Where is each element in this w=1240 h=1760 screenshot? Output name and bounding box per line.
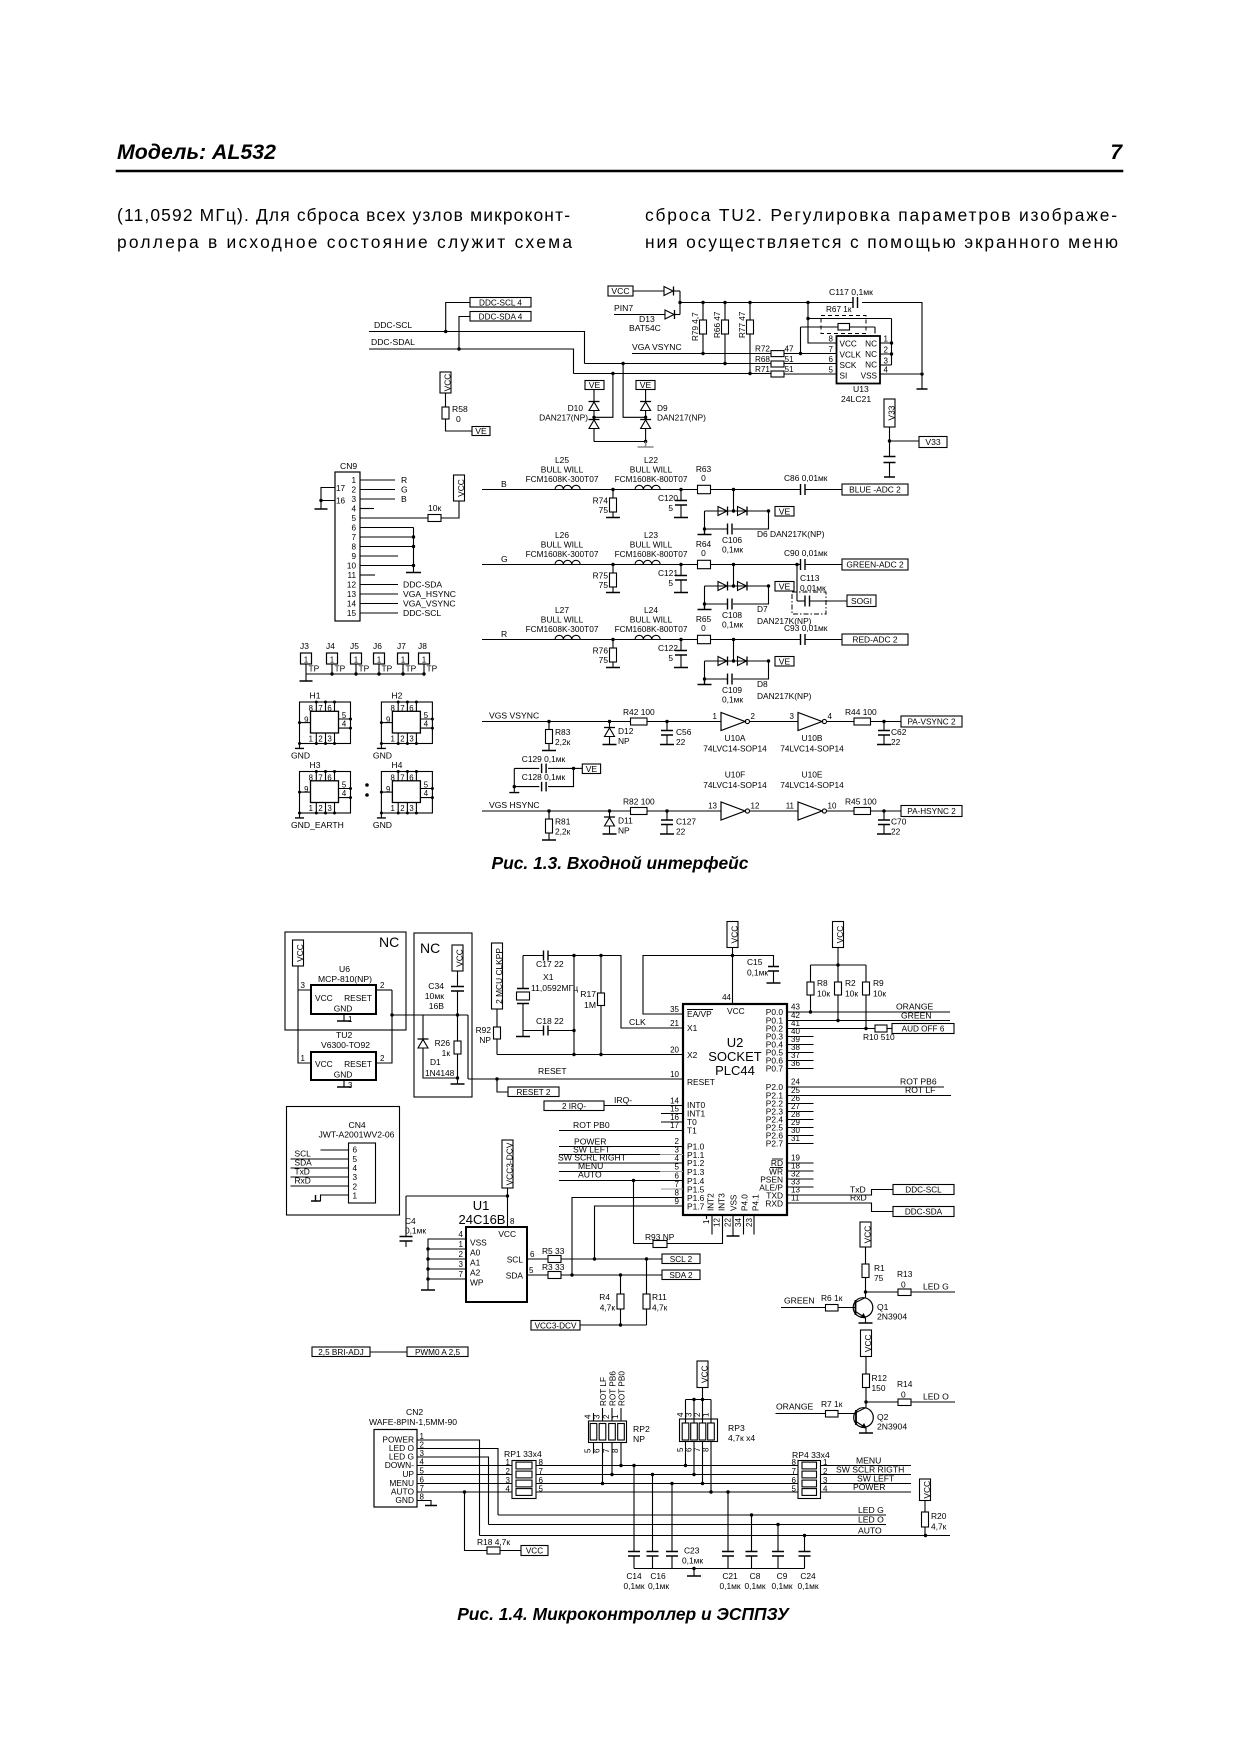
svg-text:J4: J4 (326, 641, 335, 651)
svg-text:LED G: LED G (923, 1282, 949, 1292)
wire crystal bottom with C18 (523, 1030, 574, 1032)
svg-text:VCC: VCC (526, 1547, 543, 1556)
svg-text:ORANGE: ORANGE (776, 1402, 814, 1412)
junction D9 middle (644, 416, 647, 419)
ground of H4 (380, 813, 382, 818)
svg-text:NC: NC (865, 361, 877, 370)
CN9 pin9 stub (360, 555, 398, 557)
svg-text:VCC: VCC (315, 993, 333, 1003)
svg-text:VGS VSYNC: VGS VSYNC (489, 711, 539, 721)
svg-text:R12: R12 (872, 1373, 888, 1383)
svg-text:1: 1 (713, 712, 718, 721)
svg-text:10к: 10к (428, 503, 442, 513)
svg-text:NP: NP (633, 1434, 645, 1444)
junction SDA R4 (619, 1273, 622, 1276)
wire VGS VSYNC row (482, 721, 901, 723)
wire top VCC rail with C117 (680, 303, 922, 373)
ground R83 (542, 750, 556, 752)
svg-text:0: 0 (901, 1280, 906, 1290)
RP2 pin8 wire to row1 (620, 1443, 622, 1466)
svg-text:VCC3-DCV: VCC3-DCV (505, 1142, 515, 1185)
svg-text:JWT-A2001WV2-06: JWT-A2001WV2-06 (319, 1130, 395, 1140)
svg-text:Q2: Q2 (877, 1412, 889, 1422)
svg-text:7: 7 (351, 533, 356, 542)
svg-text:C14: C14 (626, 1571, 642, 1581)
svg-text:ROT PB0: ROT PB0 (573, 1120, 610, 1130)
svg-text:Рис. 1.3. Входной интерфейс: Рис. 1.3. Входной интерфейс (492, 853, 749, 873)
svg-text:75: 75 (599, 580, 609, 590)
svg-text:0,1мк: 0,1мк (719, 1581, 740, 1591)
wire C4 top (406, 1195, 508, 1197)
svg-text:4: 4 (828, 712, 833, 721)
svg-text:ROT LF: ROT LF (599, 1377, 608, 1406)
svg-text:VE: VE (779, 656, 791, 666)
svg-text:R7 1к: R7 1к (821, 1399, 843, 1409)
svg-text:8: 8 (309, 773, 313, 782)
ground CN9 bus (406, 572, 421, 574)
svg-text:V33: V33 (925, 437, 941, 447)
resistor R6 (826, 1305, 839, 1312)
svg-text:C127: C127 (676, 817, 696, 827)
capacitor C16 (651, 1473, 654, 1476)
ground caps rail (693, 1569, 695, 1577)
svg-text:22: 22 (891, 827, 901, 837)
svg-text:2: 2 (400, 804, 404, 813)
svg-text:TP: TP (335, 664, 346, 674)
net ROT PB0 rotated label and wire (620, 1408, 622, 1421)
resistor network RP3 4,7к x4 (680, 1419, 718, 1442)
svg-text:P2.7: P2.7 (766, 1139, 784, 1149)
resistor R5 (548, 1256, 561, 1263)
svg-text:24LC21: 24LC21 (841, 394, 871, 404)
wire after series resistor (711, 564, 801, 566)
svg-text:DAN217(NP): DAN217(NP) (657, 413, 706, 423)
wire C129 C128 right join (573, 768, 575, 786)
svg-text:VCC: VCC (443, 374, 453, 392)
net box DDC-SCL (893, 1185, 954, 1195)
svg-text:4: 4 (459, 1230, 464, 1239)
svg-text:13: 13 (347, 590, 357, 599)
ground C70 (877, 833, 891, 835)
capacitor C34 (457, 971, 459, 986)
ground C128 C129 block (513, 785, 516, 788)
svg-text:NC: NC (865, 350, 877, 359)
svg-text:R8: R8 (817, 978, 828, 988)
svg-text:VGS HSYNC: VGS HSYNC (489, 800, 540, 810)
CN9 pin7 wire to bus (360, 536, 414, 538)
net label box DDC-SCL 4 (470, 298, 531, 308)
CN9 pin5 wire to resistor 10k (360, 517, 428, 519)
net box RESET 2 (508, 1087, 559, 1097)
svg-text:MCP-810(NP): MCP-810(NP) (318, 974, 372, 984)
RP2 pin7 wire to row2 (611, 1443, 613, 1475)
svg-text:6: 6 (351, 524, 356, 533)
svg-text:0,1мк: 0,1мк (771, 1581, 792, 1591)
svg-text:8: 8 (391, 773, 395, 782)
svg-text:TP: TP (309, 664, 320, 674)
power VCC box (R58) (440, 372, 451, 393)
svg-text:VSS: VSS (730, 1194, 739, 1211)
svg-text:10: 10 (347, 562, 357, 571)
svg-text:GND_EARTH: GND_EARTH (291, 820, 344, 830)
power VCC box (RP3) (697, 1361, 708, 1388)
junction diode branch (732, 638, 735, 641)
wire to diode pair (733, 640, 735, 662)
svg-text:FCM1608K-800T07: FCM1608K-800T07 (615, 549, 688, 559)
svg-text:L24: L24 (644, 605, 658, 615)
svg-text:4,7к: 4,7к (600, 1303, 616, 1313)
ground C122 (674, 667, 688, 669)
net LED G row (498, 1514, 886, 1516)
svg-text:6: 6 (409, 704, 413, 713)
svg-text:VCC: VCC (835, 926, 845, 944)
svg-text:5: 5 (342, 781, 347, 790)
svg-text:C93 0,01мк: C93 0,01мк (784, 623, 828, 633)
svg-text:10к: 10к (873, 989, 886, 999)
capacitor C17 (544, 951, 549, 961)
svg-text:A2: A2 (470, 1268, 481, 1278)
U2 bottom pin 23 stub (753, 1215, 755, 1235)
svg-text:C62: C62 (891, 727, 907, 737)
svg-text:22: 22 (676, 737, 686, 747)
power VCC box (U2) (727, 922, 738, 948)
ground below D9 D10 (638, 442, 654, 448)
svg-text:35: 35 (670, 1005, 679, 1014)
IC U13 24LC21 body (837, 336, 881, 384)
svg-text:X1: X1 (543, 972, 554, 982)
junction RESET 2 tap (495, 1077, 498, 1080)
svg-text:2: 2 (400, 734, 404, 743)
svg-text:C113: C113 (800, 573, 820, 583)
svg-text:2 IRQ-: 2 IRQ- (562, 1102, 586, 1111)
svg-text:SCK: SCK (840, 361, 857, 370)
svg-text:P1.7: P1.7 (687, 1202, 705, 1212)
wire VCC to U6 pin3 and TU2 pin1 (298, 966, 311, 1063)
wire D13 common vertical (679, 291, 681, 315)
junction on SCK rail for D9 (621, 362, 624, 365)
svg-text:C128 0,1мк: C128 0,1мк (522, 772, 566, 782)
junction Q1 collector (864, 1290, 867, 1293)
svg-text:IRQ-: IRQ- (614, 1095, 632, 1105)
diode D1 (422, 1015, 424, 1039)
svg-text:U10A: U10A (725, 733, 746, 743)
svg-text:LED O: LED O (923, 1392, 949, 1402)
svg-text:2: 2 (884, 346, 889, 355)
U13 right pin ticks NC 1-3 (880, 343, 892, 365)
svg-text:9: 9 (675, 1197, 680, 1206)
net box DDC-SDA (893, 1207, 954, 1217)
CN2 pin7 wire to RP1 (417, 1491, 516, 1493)
svg-text:VE: VE (640, 380, 652, 390)
svg-text:VCC: VCC (922, 1481, 932, 1499)
svg-text:VCC: VCC (455, 949, 465, 967)
svg-text:H1: H1 (310, 691, 321, 701)
wire D9 middle to SCK rail (623, 364, 646, 418)
svg-text:4: 4 (424, 720, 429, 729)
svg-text:R79 4,7: R79 4,7 (691, 312, 700, 341)
svg-text:22: 22 (724, 1218, 733, 1227)
diode pair D6 row (705, 510, 769, 512)
junction R2 (836, 1019, 839, 1022)
svg-text:Модель: AL532: Модель: AL532 (117, 141, 276, 164)
svg-text:17: 17 (336, 484, 346, 493)
junction R67 lower tap (799, 352, 802, 355)
net LED O row (489, 1524, 887, 1526)
svg-text:0,1мк: 0,1мк (648, 1581, 669, 1591)
svg-text:C121: C121 (658, 568, 678, 578)
svg-text:VSS: VSS (861, 372, 878, 381)
diode D9 dual (645, 390, 647, 402)
junction diode branch (732, 563, 735, 566)
svg-text:V33: V33 (887, 405, 897, 420)
resistor R9 (865, 965, 867, 982)
junction R74 (611, 488, 614, 491)
svg-text:DDC-SDAL: DDC-SDAL (371, 337, 415, 347)
inductor L25 (555, 485, 580, 489)
svg-text:0,1мк: 0,1мк (722, 695, 743, 705)
wire T0 stub pin16 (661, 1121, 683, 1123)
junction R9 (864, 1027, 867, 1030)
svg-text:22: 22 (891, 737, 901, 747)
svg-text:GREEN: GREEN (784, 1296, 815, 1306)
U6 pin2 wire (376, 989, 392, 991)
junction R76 (611, 638, 614, 641)
svg-text:L22: L22 (644, 455, 658, 465)
svg-text:WAFE-8PIN-1,5MM-90: WAFE-8PIN-1,5MM-90 (369, 1417, 457, 1427)
svg-text:CN9: CN9 (340, 461, 357, 471)
svg-text:CN2: CN2 (406, 1407, 423, 1417)
capacitor C108 branch (705, 586, 728, 604)
svg-text:4: 4 (351, 505, 356, 514)
resistor R12 (865, 1357, 867, 1375)
svg-text:10мк: 10мк (425, 991, 444, 1001)
ground R76 (606, 667, 620, 669)
svg-text:RESET: RESET (687, 1077, 715, 1087)
svg-text:5: 5 (424, 781, 429, 790)
inductor L26 (555, 560, 580, 564)
svg-text:TP: TP (406, 664, 417, 674)
svg-text:U10B: U10B (802, 733, 823, 743)
svg-text:R10 510: R10 510 (863, 1032, 895, 1042)
junction R18 tap on AUTO row (463, 1490, 466, 1493)
svg-text:VGA_HSYNC: VGA_HSYNC (403, 589, 456, 599)
resistor R4 (620, 1275, 622, 1294)
resistor R17 (600, 956, 602, 994)
svg-text:R5 33: R5 33 (542, 1246, 565, 1256)
capacitor C122 (680, 640, 682, 651)
wire R72 to U13 pin7 (784, 353, 837, 355)
svg-text:10: 10 (828, 802, 837, 811)
net box AUD OFF 6 (892, 1024, 954, 1034)
svg-text:(11,0592 МГц). Для сброса всех: (11,0592 МГц). Для сброса всех узлов мик… (117, 205, 570, 225)
wire P0.1 GREEN (787, 1020, 950, 1022)
wire P1.7 pin9 to SCL row (595, 1206, 684, 1259)
net V33 box (890, 440, 920, 442)
wire U6 RESET to TU2 RESET vertical (376, 990, 392, 1063)
svg-text:CLK: CLK (629, 1017, 646, 1027)
CN2 pin4 wire to RP1 (417, 1465, 516, 1467)
svg-text:R11: R11 (652, 1292, 667, 1302)
ground diode branch R (698, 679, 712, 685)
svg-text:11: 11 (348, 571, 357, 580)
CN2 pin1 POWER wire to lower AUTO row (417, 1440, 480, 1536)
CN9 pin6 wire to bus (360, 527, 414, 529)
junction diode branch (732, 488, 735, 491)
CN2 pin2 LED O wire (417, 1449, 498, 1516)
junction R83 (547, 720, 550, 723)
svg-text:21: 21 (670, 1019, 679, 1028)
CN9 pin12 wire net DDC-SDA (360, 584, 398, 586)
transistor Q1 2N3904 (853, 1298, 873, 1318)
ground diode branch G (698, 604, 712, 610)
svg-text:P0.7: P0.7 (766, 1064, 784, 1074)
net VE box (R58) (472, 427, 490, 436)
power VCC box (R20) (920, 1479, 931, 1501)
CN2 pin8 GND wire (417, 1501, 431, 1506)
junction R17 bottom (599, 1053, 602, 1056)
svg-text:2: 2 (380, 981, 385, 990)
svg-text:INT3: INT3 (718, 1193, 727, 1211)
U2 bottom pin 12 INT3 stub (711, 1215, 713, 1235)
wire VCC3-DCV down to U1 VCC pin8 (507, 1188, 509, 1227)
capacitor C14 (632, 1464, 635, 1467)
svg-text:RP3: RP3 (728, 1423, 745, 1433)
junction R8 (809, 1010, 812, 1013)
svg-text:2N3904: 2N3904 (877, 1312, 907, 1322)
svg-text:U10F: U10F (725, 770, 745, 780)
svg-text:2,2к: 2,2к (555, 737, 571, 747)
svg-text:GND: GND (334, 1070, 353, 1080)
svg-text:L27: L27 (555, 605, 569, 615)
svg-text:9: 9 (304, 785, 308, 794)
svg-text:4: 4 (884, 366, 889, 375)
svg-text:8: 8 (829, 335, 834, 344)
svg-text:7: 7 (318, 773, 322, 782)
wire to diode pair (733, 565, 735, 587)
wire D10 D9 bottom join (594, 441, 646, 443)
svg-text:D12: D12 (618, 726, 634, 736)
svg-text:SOGI: SOGI (851, 596, 872, 606)
wire VGA VSYNC to R72 (632, 353, 771, 355)
svg-text:NP: NP (479, 1035, 491, 1045)
svg-text:C8: C8 (750, 1571, 761, 1581)
junction VSS rail corner (920, 372, 923, 375)
svg-text:0: 0 (456, 414, 461, 424)
RP2 bottom stub pin5 (593, 1443, 595, 1454)
svg-text:NP: NP (618, 736, 630, 746)
wire after series resistor (711, 489, 801, 491)
junction C121 (679, 563, 682, 566)
svg-text:RXD: RXD (765, 1199, 783, 1209)
svg-text:R83: R83 (555, 727, 571, 737)
svg-text:роллера в исходное состояни: роллера в исходное состояние служит схем… (117, 232, 572, 252)
connector CN9 body (335, 472, 360, 621)
resistor R8 (810, 965, 812, 982)
junction C122 (679, 638, 682, 641)
net VE box above D10 (585, 381, 604, 390)
junction R17 top (599, 954, 602, 957)
svg-text:1: 1 (351, 476, 356, 485)
capacitor C70 (883, 811, 885, 820)
svg-text:74LVC14-SOP14: 74LVC14-SOP14 (780, 744, 844, 754)
svg-text:NC: NC (420, 940, 440, 956)
svg-text:20: 20 (670, 1046, 679, 1055)
inverter U10B (798, 713, 822, 731)
svg-text:12: 12 (751, 802, 760, 811)
net VCC box (R18) (521, 1546, 548, 1556)
svg-text:R77 47: R77 47 (738, 311, 747, 338)
svg-text:TP: TP (382, 664, 393, 674)
svg-text:5: 5 (353, 1155, 358, 1164)
svg-text:1: 1 (702, 1219, 711, 1224)
svg-text:1: 1 (353, 1192, 358, 1201)
svg-text:R76: R76 (593, 646, 609, 656)
svg-text:J8: J8 (418, 641, 427, 651)
capacitor C8 (750, 1513, 753, 1516)
svg-text:VE: VE (586, 764, 598, 774)
svg-text:47: 47 (785, 345, 795, 354)
svg-text:RxD: RxD (850, 1193, 867, 1203)
junction rail R77 (748, 301, 751, 304)
svg-text:PA-VSYNC 2: PA-VSYNC 2 (907, 718, 956, 727)
CN2 pin6 wire to RP1 (417, 1483, 516, 1485)
svg-text:5: 5 (668, 578, 673, 588)
wire P2.1 ROT LF (787, 1095, 951, 1097)
svg-text:DDC-SCL 4: DDC-SCL 4 (479, 298, 522, 307)
pullup rail R8 R2 R9 (811, 964, 867, 966)
svg-text:4,7к x4: 4,7к x4 (728, 1433, 755, 1443)
junction R20 AUTO (924, 1534, 927, 1537)
svg-text:C90 0,01мк: C90 0,01мк (784, 548, 828, 558)
svg-text:2 MCU CLKPP: 2 MCU CLKPP (494, 948, 504, 1004)
svg-text:R26: R26 (435, 1038, 451, 1048)
svg-text:9: 9 (304, 716, 308, 725)
resistor R79 (702, 303, 704, 321)
junction RESET net (390, 1013, 393, 1016)
net ROT PB6 rotated label and wire (611, 1408, 613, 1421)
svg-text:H2: H2 (391, 691, 402, 701)
junction R75 (611, 563, 614, 566)
svg-text:2N3904: 2N3904 (877, 1422, 907, 1432)
resistor R7 (826, 1411, 839, 1418)
wire V33 down (889, 427, 891, 441)
net label box DDC-SDA 4 (470, 312, 531, 322)
svg-text:2: 2 (351, 486, 356, 495)
capacitor C4 (405, 1196, 407, 1237)
svg-text:C4: C4 (405, 1216, 416, 1226)
svg-text:R: R (401, 475, 407, 485)
svg-text:DAN217K(NP): DAN217K(NP) (757, 691, 812, 701)
svg-text:FCM1608K-300T07: FCM1608K-300T07 (526, 624, 599, 634)
junction X2 rail C18 (572, 1053, 575, 1056)
junction C17 right (572, 954, 575, 957)
power VCC box (pullups) (833, 922, 844, 948)
svg-text:DDC-SDA 4: DDC-SDA 4 (479, 312, 523, 321)
svg-text:U10E: U10E (802, 770, 823, 780)
wire VCC to U2 pin44 (732, 948, 734, 1005)
svg-text:BLUE -ADC 2: BLUE -ADC 2 (849, 485, 901, 495)
junction SDA P1.6 (570, 1273, 573, 1276)
wire VCC rail to EA/VP (643, 956, 733, 1015)
svg-text:VCC: VCC (840, 340, 857, 349)
svg-text:D7: D7 (757, 604, 768, 614)
CN9 pin2 wire net G (360, 489, 395, 491)
wire U13 pin8 VCC (808, 303, 837, 344)
svg-text:D11: D11 (618, 816, 633, 826)
svg-text:2: 2 (380, 1054, 385, 1063)
ground for U13 VSS (921, 374, 923, 389)
svg-text:L25: L25 (555, 455, 569, 465)
